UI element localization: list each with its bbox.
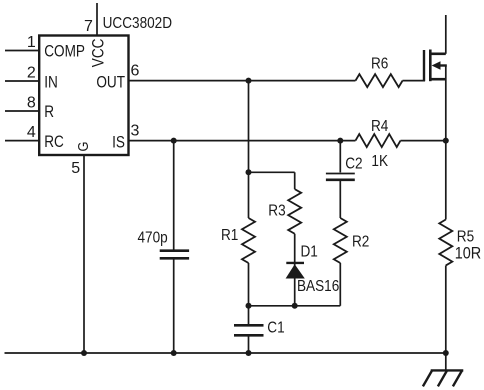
svg-text:RC: RC — [44, 133, 64, 152]
svg-text:R5: R5 — [457, 229, 474, 246]
svg-text:D1: D1 — [301, 243, 318, 260]
svg-text:7: 7 — [84, 18, 93, 35]
svg-text:3: 3 — [131, 122, 140, 139]
svg-text:G: G — [74, 142, 91, 152]
svg-text:C1: C1 — [267, 319, 284, 336]
svg-text:C2: C2 — [345, 155, 362, 172]
svg-text:8: 8 — [27, 94, 36, 111]
svg-text:UCC3802D: UCC3802D — [103, 15, 172, 32]
svg-text:4: 4 — [27, 124, 36, 141]
svg-text:VCC: VCC — [89, 39, 108, 68]
svg-text:IS: IS — [112, 133, 125, 152]
svg-text:COMP: COMP — [44, 42, 85, 61]
svg-text:1K: 1K — [371, 153, 388, 170]
svg-text:470p: 470p — [137, 230, 167, 247]
svg-text:BAS16: BAS16 — [297, 278, 339, 295]
svg-text:IN: IN — [44, 73, 58, 92]
svg-text:OUT: OUT — [96, 73, 125, 92]
svg-text:6: 6 — [131, 62, 140, 79]
svg-text:2: 2 — [27, 64, 36, 81]
svg-text:R3: R3 — [268, 202, 285, 219]
svg-text:10R: 10R — [455, 245, 481, 263]
svg-text:R6: R6 — [371, 56, 388, 73]
svg-text:R: R — [44, 103, 54, 122]
svg-text:R1: R1 — [221, 227, 238, 244]
svg-text:R2: R2 — [352, 233, 369, 250]
svg-text:1: 1 — [27, 34, 36, 51]
svg-text:R4: R4 — [371, 118, 388, 135]
svg-text:5: 5 — [71, 160, 80, 177]
